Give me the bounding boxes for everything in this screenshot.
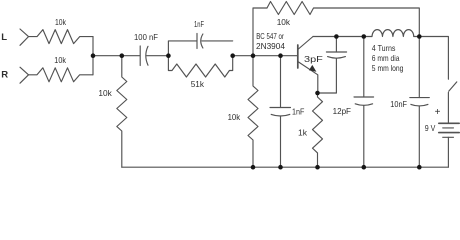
resistor 10k (top bias) [267,2,419,37]
wire switch to battery [447,92,449,122]
battery 9V plates [439,122,459,124]
svg-text:3pF: 3pF [304,54,323,64]
svg-text:R: R [1,70,8,81]
capacitor 3pF (feedback) [335,37,337,53]
wire battery to ground rail [447,137,449,167]
node junction dot L/R [91,53,96,58]
node dot ground 10nF [417,165,422,170]
node dot parallel left [166,53,171,58]
svg-text:51k: 51k [191,79,205,89]
capacitor 12pF (tank) [363,37,365,98]
svg-text:2N3904: 2N3904 [256,41,285,51]
wire tank right to supply corner [414,37,449,80]
node dot tank left [362,34,367,39]
svg-text:1nF: 1nF [292,107,304,117]
svg-text:BC 547 or: BC 547 or [256,31,284,41]
svg-text:L: L [1,32,7,43]
node dot 1nF base [278,53,283,58]
node dot emitter [315,91,320,96]
node dot 10k left [120,53,125,58]
wire top branch to 1nF [168,41,197,56]
capacitor 100nF [139,46,141,66]
resistor 10k (left, to ground) [117,56,127,168]
svg-text:10k: 10k [98,88,112,98]
wire bottom ground rail [122,166,449,168]
wire base row [233,55,298,57]
svg-text:4 Turns: 4 Turns [372,43,396,53]
svg-text:9 V: 9 V [425,123,436,133]
transistor emitter arrow [309,65,317,72]
wire mixing junction vertical [92,37,94,75]
svg-text:10k: 10k [55,17,67,27]
svg-text:12pF: 12pF [333,106,351,116]
svg-text:5 mm long: 5 mm long [372,63,404,73]
node dot 3pF collector [334,34,339,39]
wire main row to 100nF [93,55,140,57]
node dot tank right [417,34,422,39]
capacitor 1nF (parallel top) [196,34,198,49]
resistor 51k (parallel bottom) [168,56,232,77]
svg-text:100 nF: 100 nF [134,32,158,42]
svg-text:10nF: 10nF [390,99,407,109]
resistor 10k (R input) [29,68,94,82]
svg-text:6 mm dia: 6 mm dia [372,53,400,63]
transistor collector lead [298,37,313,50]
input jack L [20,29,29,45]
node dot ground 10k [251,165,256,170]
svg-text:1k: 1k [298,128,308,138]
transistor emitter lead [298,62,318,94]
wire collector row [313,36,372,38]
resistor 10k (L input) [29,30,94,44]
svg-text:10k: 10k [54,55,66,65]
wire to top rail [253,8,267,56]
svg-text:10k: 10k [228,112,241,122]
capacitor 1nF (base to ground) [280,56,282,108]
resistor 1k (emitter) [313,93,323,167]
switch S1 lever [449,82,457,91]
svg-text:1nF: 1nF [194,19,204,29]
resistor 10k (base to ground) [248,56,258,168]
transistor Q1 BC547 base bar [297,45,299,68]
input jack R [20,67,29,83]
node dot ground 1nF [278,165,283,170]
node dot bias [251,53,256,58]
node dot ground 12pF [362,165,367,170]
svg-text:10k: 10k [277,17,291,27]
node dot parallel right [230,53,235,58]
svg-text:+: + [435,107,441,118]
capacitor 10nF (supply bypass) [418,37,420,98]
inductor L1 4 turns [372,30,414,37]
wire emitter node [318,92,337,94]
node dot ground 1k [315,165,320,170]
